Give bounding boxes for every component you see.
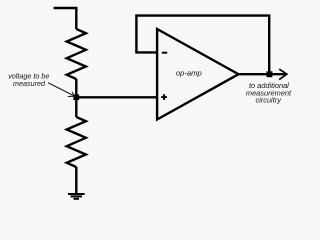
resistor R1 (upper divider resistor) xyxy=(67,29,86,79)
op-amp U1 xyxy=(157,29,238,120)
wire: R2 bottom lead to ground xyxy=(75,167,77,194)
pin label: non-inverting input plus xyxy=(161,94,167,100)
wire: R1 bottom lead to node xyxy=(75,79,77,97)
arrowhead: output to additional circuitry xyxy=(279,69,287,80)
svg-text:op-amp: op-amp xyxy=(176,68,202,77)
wire: node to non-inverting input xyxy=(76,96,157,98)
node B (output junction) xyxy=(267,71,273,77)
ground xyxy=(68,194,85,199)
svg-text:measured: measured xyxy=(13,79,46,88)
node A (measured voltage junction) xyxy=(73,94,79,100)
annotation arrow: label to node A xyxy=(48,83,74,97)
pin label: inverting input minus xyxy=(162,52,167,54)
wire: node down to R2 xyxy=(75,97,77,117)
wire: supply stub top-left xyxy=(54,8,77,29)
svg-text:circuitry: circuitry xyxy=(255,96,282,105)
resistor R2 (lower divider resistor) xyxy=(67,117,86,167)
wire: op-amp output xyxy=(239,73,286,75)
wire: feedback from output node to inverting input xyxy=(136,16,269,75)
